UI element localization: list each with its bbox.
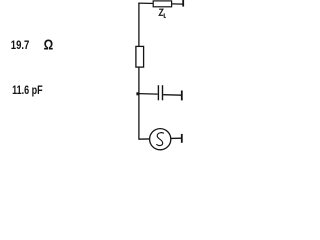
svg-text:Ω: Ω xyxy=(44,38,54,54)
svg-text:19.7: 19.7 xyxy=(11,38,30,52)
svg-text:11.6 pF: 11.6 pF xyxy=(12,85,43,97)
